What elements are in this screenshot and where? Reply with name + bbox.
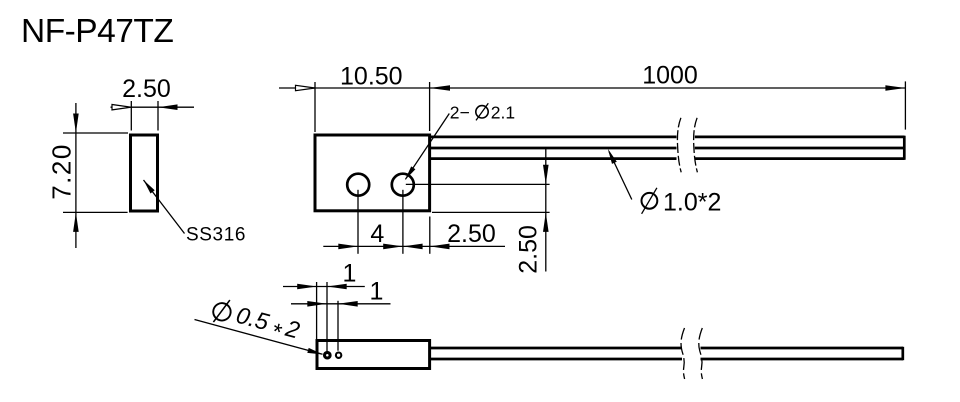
- upper dimension 1 line: [283, 286, 365, 288]
- open arrow pointing right at x=131: [112, 105, 131, 110]
- leader arrow of phi1.0*2 pointing to wire: [608, 149, 617, 164]
- wire bottom line (bottom view, right of break): [701, 358, 904, 361]
- leader arrow of 2-phi2.1 pointing to hole 2: [405, 166, 416, 180]
- bottom view body outline: [317, 341, 430, 369]
- break squiggle 2 (front view): [694, 118, 698, 173]
- open arrow pointing right at x=315: [296, 85, 316, 90]
- front view body outline: [315, 135, 430, 211]
- SS316 leader line: [144, 180, 185, 234]
- wire top line (bottom view, right of break): [701, 347, 904, 350]
- wire bottom line (front view, right of break): [695, 157, 905, 160]
- label phi1.0*2 : phi circle: [642, 193, 658, 209]
- extension line at body right: [429, 82, 431, 131]
- svg-text:SS316: SS316: [186, 225, 246, 246]
- wire bottom line (front view, left of break): [430, 157, 677, 160]
- lower dimension 1 line: [291, 303, 391, 305]
- filled arrow pointing left at x=326.8 upper: [327, 284, 347, 290]
- hole circle 1: [347, 174, 369, 196]
- svg-text:2.1: 2.1: [491, 102, 515, 122]
- phi symbol slash of 2-phi2.1: [476, 103, 488, 120]
- filled arrow pointing right at x=905.4: [885, 85, 905, 91]
- extension line from hole center to right: [406, 183, 550, 185]
- SS316 leader arrow: [144, 180, 155, 194]
- filled arrow pointing up at y=212.4: [543, 212, 549, 232]
- extension line from hole 2 center down: [402, 190, 404, 254]
- svg-text:2.50: 2.50: [447, 220, 496, 248]
- filled arrow pointing down at y=183.9: [543, 165, 549, 185]
- extension line left of 2.50: [130, 101, 132, 131]
- bottom dimension line for 4 and 2.50: [323, 245, 505, 247]
- wire middle line (front view, right of break): [695, 147, 905, 150]
- fiber dot 2: [336, 353, 341, 358]
- dimension 2.50 (left view width) line: [111, 106, 195, 108]
- vertical dimension 2.50 line: [545, 149, 547, 272]
- extension line dot 2 up: [337, 301, 339, 351]
- break squiggle 1 (bottom view): [681, 328, 685, 379]
- svg-text:1: 1: [343, 260, 357, 288]
- fiber dot 1: [325, 352, 331, 358]
- wire top line (front view, left of break): [430, 136, 677, 139]
- wire middle line (front view, left of break): [430, 147, 677, 150]
- wire top line (bottom view, left of break): [430, 347, 682, 350]
- filled arrow pointing left at x=337.4 lower: [338, 301, 358, 307]
- hole circle 2: [392, 174, 414, 196]
- extension line from body bottom to right: [432, 211, 550, 213]
- filled arrow pointing right at x=358: [338, 244, 358, 250]
- wire top line (front view, right of break): [695, 136, 905, 139]
- break squiggle 2 (bottom view): [699, 328, 703, 379]
- leader line of phi1.0*2: [609, 152, 632, 200]
- extension line body left edge up: [316, 282, 318, 341]
- svg-text:4: 4: [370, 220, 384, 248]
- label phi1.0*2 : phi slash: [642, 188, 657, 214]
- filled arrow pointing right at x=402.9: [383, 244, 403, 250]
- left side view body outline: [131, 135, 158, 211]
- extension line from hole 1 center down: [357, 190, 359, 254]
- svg-text:2.50: 2.50: [515, 225, 543, 274]
- extension line at body left: [314, 82, 316, 132]
- phi symbol circle of 2-phi2.1: [476, 106, 488, 118]
- svg-text:NF-P47TZ: NF-P47TZ: [21, 13, 173, 50]
- dimension 7.20 vertical line: [75, 103, 77, 248]
- label phi0.5*2 rotated group: [209, 296, 303, 350]
- filled arrow pointing down at y=133: [73, 114, 79, 134]
- filled arrow pointing right at x=316.9 upper: [297, 284, 317, 290]
- filled arrow pointing left at x=158: [158, 104, 178, 110]
- filled arrow pointing left at x=402.9: [403, 244, 423, 250]
- extension line right of 2.50: [157, 101, 159, 131]
- filled arrow pointing right at x=326.8 lower: [307, 301, 327, 307]
- wire bottom line (bottom view, left of break): [430, 358, 682, 361]
- filled arrow pointing left at x=429.8: [430, 244, 450, 250]
- dimension line 10.50 / 1000 (shared): [279, 87, 905, 89]
- filled arrow pointing up at y=212.4: [73, 212, 79, 232]
- svg-text:2−: 2−: [450, 102, 470, 122]
- filled arrow pointing left at x=429.6: [430, 85, 450, 91]
- svg-text:1.0*2: 1.0*2: [663, 188, 721, 216]
- phi symbol slash of phi0.5*2: [213, 297, 229, 324]
- svg-text:10.50: 10.50: [340, 62, 403, 90]
- wire end cap (bottom view): [901, 347, 904, 360]
- wire end cap (front view): [903, 136, 906, 160]
- svg-text:7.20: 7.20: [47, 143, 77, 200]
- extension line dot 1 up: [326, 282, 328, 351]
- svg-text:1000: 1000: [642, 62, 698, 90]
- extension line top of 7.20: [63, 132, 128, 134]
- phi symbol circle of phi0.5*2: [211, 301, 232, 322]
- leader line of 2-phi2.1: [406, 114, 450, 180]
- svg-text:1: 1: [370, 278, 384, 306]
- svg-text:2.50: 2.50: [122, 75, 171, 103]
- extension line from body right edge down: [429, 217, 431, 254]
- leader line of phi0.5*2: [195, 320, 323, 355]
- leader arrow of phi0.5*2: [307, 348, 323, 355]
- break squiggle 1 (front view): [677, 118, 681, 173]
- extension line at wire right end: [904, 81, 906, 129]
- extension line bottom of 7.20: [63, 211, 128, 213]
